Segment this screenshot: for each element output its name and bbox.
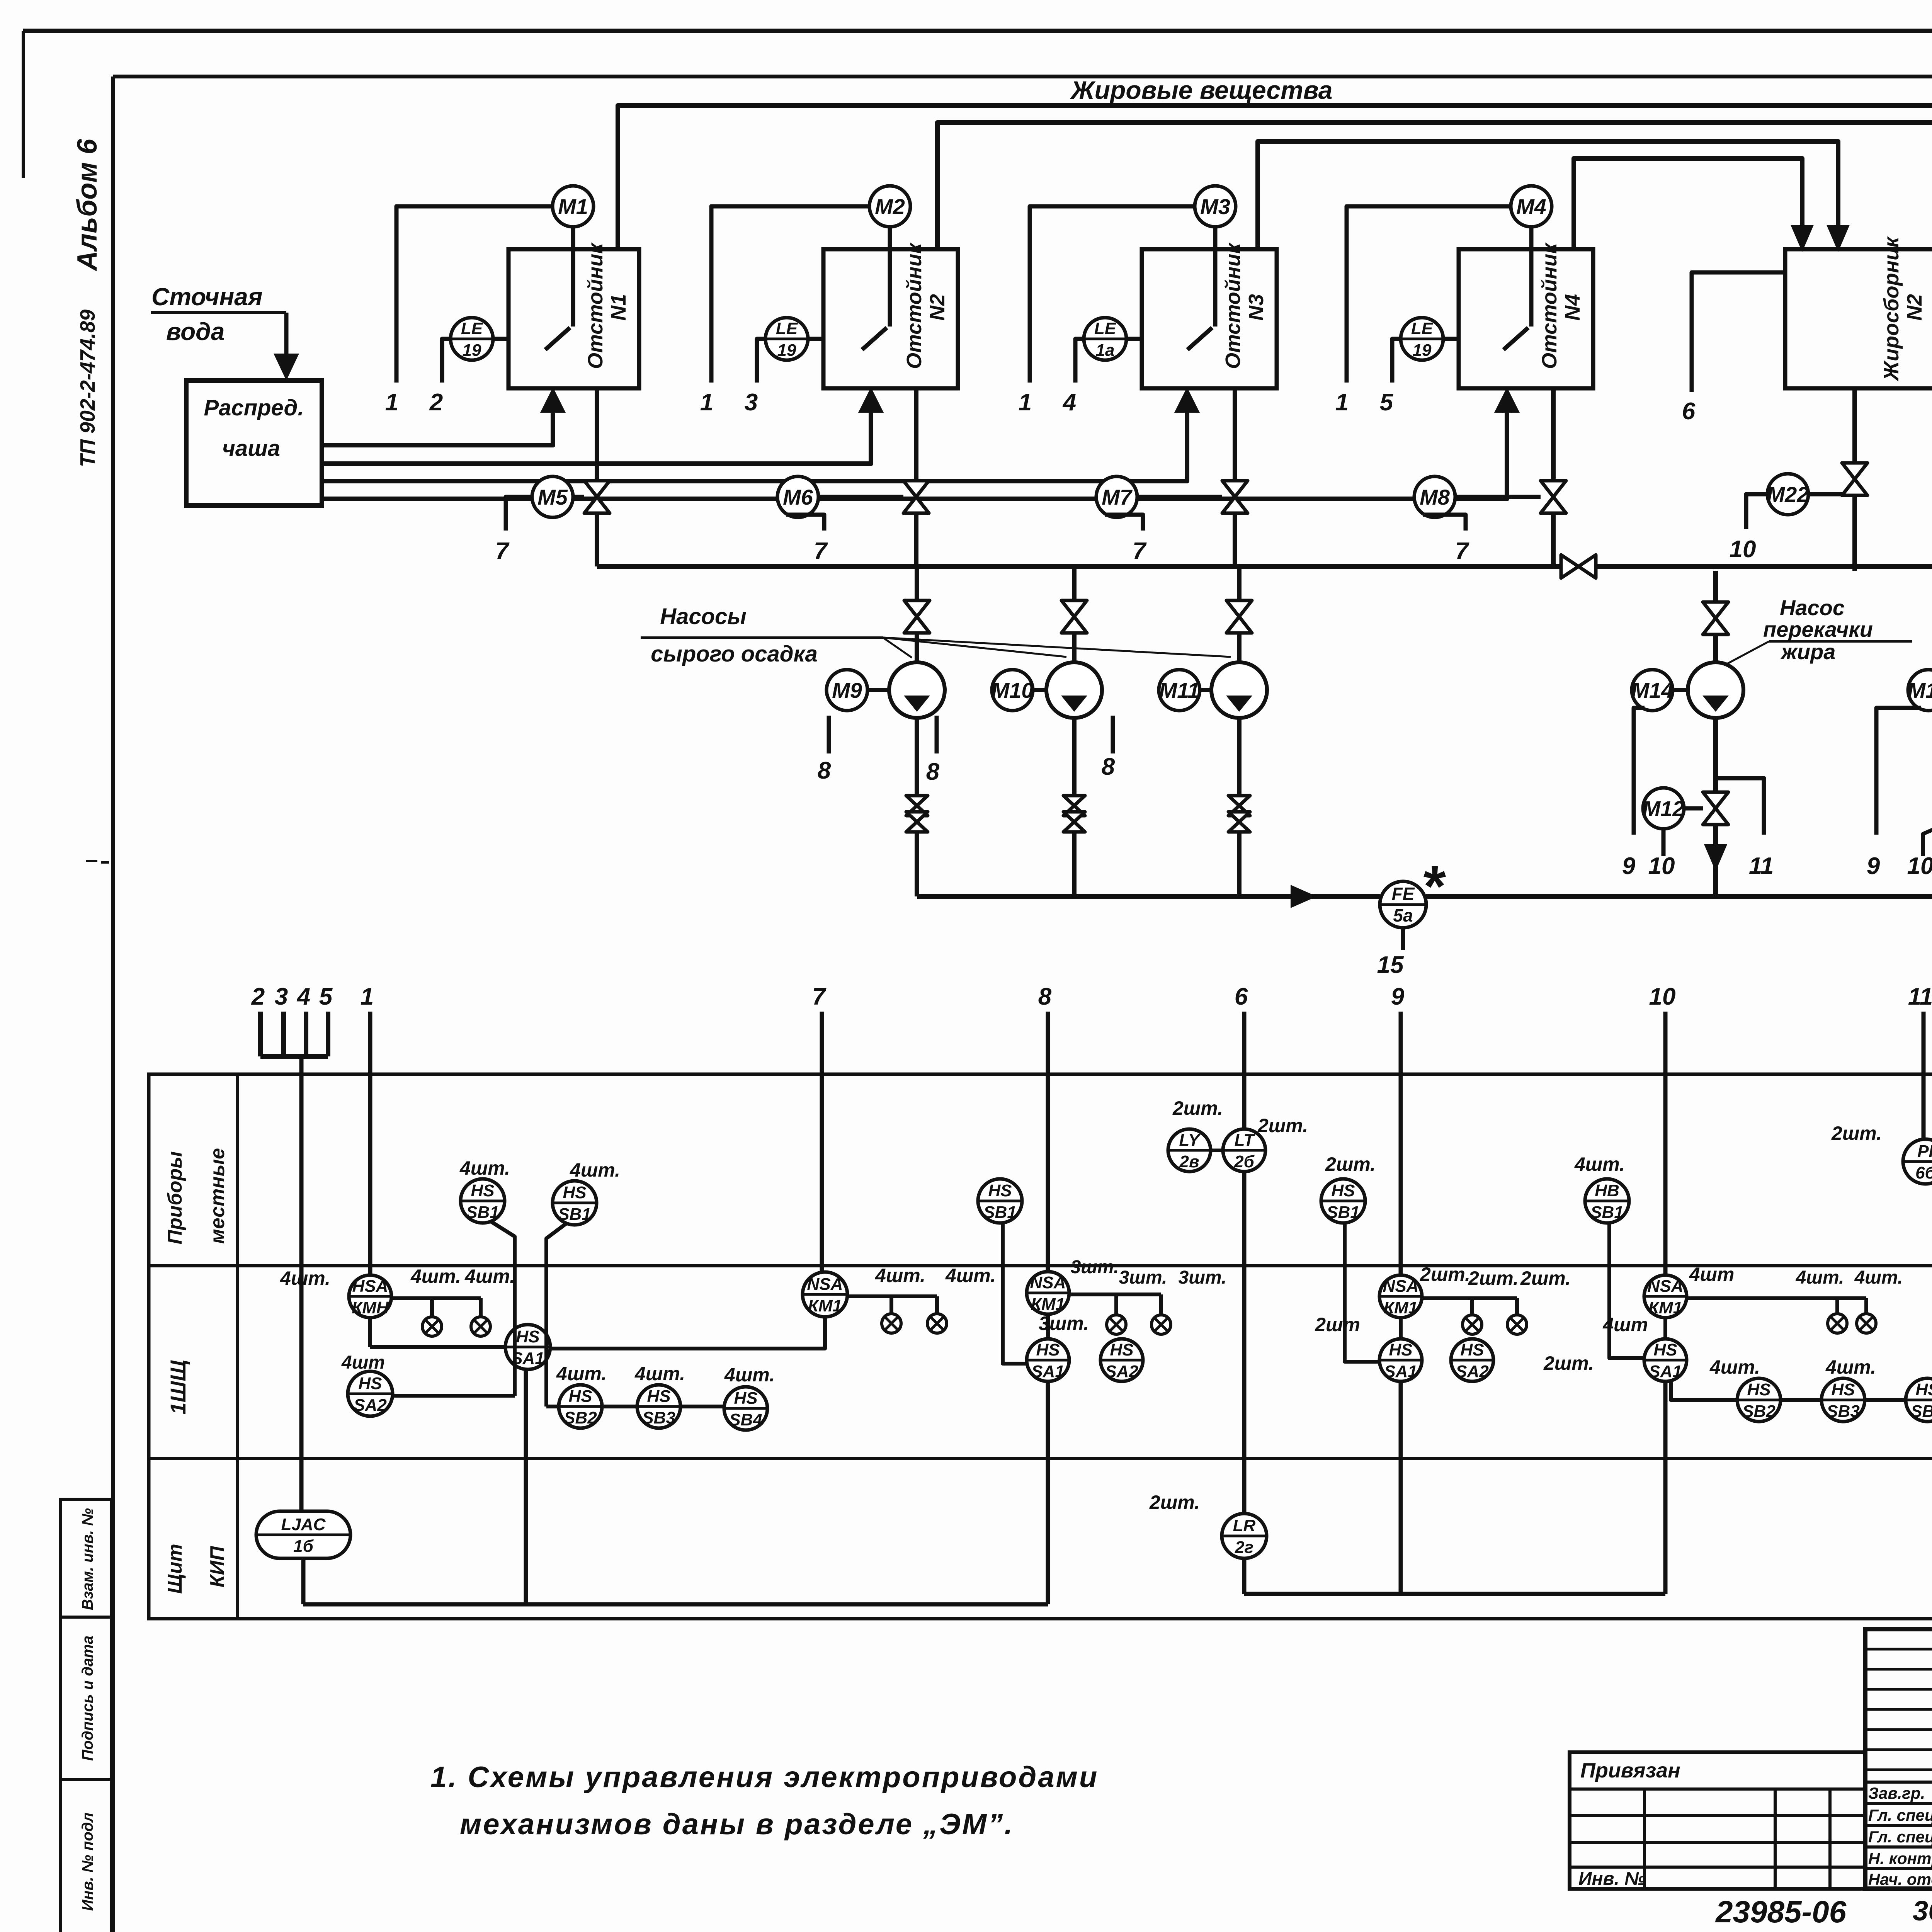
- svg-text:Подпись и дата: Подпись и дата: [79, 1636, 96, 1761]
- svg-text:2: 2: [251, 983, 265, 1010]
- svg-text:1а: 1а: [1096, 341, 1115, 360]
- svg-text:ТП 902-2-474.89: ТП 902-2-474.89: [76, 310, 99, 467]
- svg-text:SA2: SA2: [1105, 1362, 1138, 1381]
- svg-text:N1: N1: [607, 294, 630, 321]
- svg-text:LE: LE: [461, 319, 483, 338]
- svg-text:2г: 2г: [1235, 1538, 1253, 1557]
- svg-text:КМ1: КМ1: [1384, 1298, 1418, 1317]
- svg-text:жира: жира: [1780, 639, 1836, 664]
- svg-text:2шт.: 2шт.: [1172, 1097, 1223, 1119]
- svg-text:NSA: NSA: [807, 1275, 843, 1294]
- svg-text:7: 7: [812, 983, 827, 1010]
- svg-text:10: 10: [1907, 853, 1932, 879]
- svg-text:Сточная: Сточная: [151, 283, 262, 311]
- svg-text:Отстойник: Отстойник: [903, 242, 926, 369]
- svg-text:SB1: SB1: [558, 1205, 591, 1224]
- svg-text:2: 2: [429, 389, 443, 416]
- svg-text:LR: LR: [1233, 1516, 1256, 1535]
- svg-text:5: 5: [1380, 389, 1394, 416]
- svg-text:1. Схемы управления электроп: 1. Схемы управления электроприводами: [430, 1761, 1099, 1794]
- svg-text:6: 6: [1682, 398, 1696, 425]
- svg-text:N3: N3: [1245, 294, 1268, 321]
- svg-text:4шт.: 4шт.: [875, 1265, 925, 1286]
- svg-text:7: 7: [1455, 538, 1469, 565]
- svg-text:КМ1: КМ1: [808, 1296, 842, 1315]
- svg-text:M1: M1: [558, 194, 588, 219]
- svg-text:PI: PI: [1917, 1142, 1932, 1161]
- svg-text:SB1: SB1: [1327, 1203, 1360, 1222]
- svg-text:HS: HS: [988, 1181, 1012, 1200]
- svg-text:4шт.: 4шт.: [1574, 1153, 1625, 1175]
- svg-text:3шт.: 3шт.: [1119, 1267, 1167, 1288]
- svg-text:HS: HS: [568, 1387, 592, 1406]
- svg-text:M3: M3: [1200, 194, 1230, 219]
- svg-text:11: 11: [1908, 983, 1932, 1010]
- svg-text:6б: 6б: [1915, 1163, 1932, 1182]
- svg-text:SA2: SA2: [1456, 1362, 1489, 1381]
- svg-text:4шт.: 4шт.: [1709, 1356, 1760, 1378]
- svg-text:HS: HS: [734, 1389, 757, 1408]
- svg-text:36: 36: [1913, 1896, 1932, 1927]
- svg-text:LE: LE: [1411, 319, 1434, 338]
- svg-text:LE: LE: [776, 319, 798, 338]
- svg-text:HS: HS: [1831, 1380, 1855, 1399]
- svg-text:5а: 5а: [1393, 905, 1413, 925]
- svg-text:Взам. инв. №: Взам. инв. №: [79, 1508, 96, 1610]
- svg-text:HS: HS: [471, 1181, 494, 1200]
- svg-text:SA1: SA1: [1649, 1362, 1682, 1381]
- svg-text:2шт.: 2шт.: [1325, 1153, 1376, 1175]
- svg-text:M4: M4: [1516, 194, 1546, 219]
- svg-text:1: 1: [700, 389, 713, 416]
- svg-text:КИП: КИП: [206, 1546, 229, 1587]
- svg-text:Отстойник: Отстойник: [1221, 242, 1245, 369]
- svg-text:SB1: SB1: [1590, 1203, 1624, 1222]
- svg-text:15: 15: [1377, 952, 1404, 978]
- svg-text:SB3: SB3: [642, 1408, 675, 1427]
- svg-text:6: 6: [1235, 983, 1248, 1010]
- svg-text:3шт.: 3шт.: [1179, 1267, 1227, 1288]
- svg-text:LT: LT: [1235, 1131, 1255, 1150]
- svg-text:M15: M15: [1908, 678, 1932, 702]
- svg-text:HS: HS: [516, 1327, 539, 1346]
- svg-text:КМ1: КМ1: [1031, 1295, 1065, 1314]
- svg-text:5: 5: [319, 983, 333, 1010]
- svg-text:2шт.: 2шт.: [1257, 1115, 1308, 1136]
- svg-text:4: 4: [296, 983, 310, 1010]
- svg-text:7: 7: [1133, 538, 1147, 565]
- svg-text:4шт.: 4шт.: [1796, 1267, 1844, 1288]
- svg-text:*: *: [1421, 854, 1446, 918]
- svg-text:4шт.: 4шт.: [280, 1267, 330, 1289]
- svg-text:2б: 2б: [1234, 1152, 1255, 1171]
- svg-text:1ШЩ: 1ШЩ: [166, 1360, 190, 1414]
- svg-text:4: 4: [1062, 389, 1076, 416]
- svg-text:M11: M11: [1159, 678, 1200, 702]
- svg-text:SB1: SB1: [983, 1203, 1017, 1222]
- svg-text:1: 1: [361, 983, 374, 1010]
- svg-text:3: 3: [745, 389, 758, 416]
- svg-text:M7: M7: [1102, 485, 1133, 509]
- svg-text:8: 8: [818, 757, 831, 784]
- svg-text:HS: HS: [1110, 1340, 1133, 1359]
- svg-text:SB3: SB3: [1827, 1402, 1860, 1421]
- svg-text:4шт.: 4шт.: [1854, 1267, 1903, 1288]
- svg-text:4шт.: 4шт.: [724, 1364, 775, 1386]
- svg-text:2в: 2в: [1179, 1152, 1199, 1171]
- svg-text:2шт.: 2шт.: [1149, 1492, 1200, 1513]
- svg-text:Щит: Щит: [164, 1544, 186, 1594]
- svg-text:7: 7: [495, 538, 510, 565]
- svg-text:1б: 1б: [293, 1537, 314, 1556]
- svg-text:перекачки: перекачки: [1763, 617, 1873, 641]
- svg-text:Гл. спец: Гл. спец: [1868, 1828, 1932, 1846]
- svg-text:Гл. спец: Гл. спец: [1868, 1806, 1932, 1824]
- svg-text:механизмов даны в разделе „Э: механизмов даны в разделе „ЭМ”.: [460, 1808, 1014, 1841]
- svg-text:4шт.: 4шт.: [556, 1363, 607, 1384]
- svg-text:4шт.: 4шт.: [945, 1265, 996, 1286]
- svg-text:N2: N2: [926, 294, 949, 321]
- svg-text:Распред.: Распред.: [204, 395, 304, 420]
- svg-text:HSA: HSA: [352, 1277, 388, 1296]
- svg-text:4шт.: 4шт.: [1825, 1356, 1876, 1378]
- svg-text:SB2: SB2: [564, 1408, 597, 1427]
- svg-text:Насос: Насос: [1780, 595, 1845, 620]
- svg-text:SA1: SA1: [1031, 1362, 1065, 1381]
- svg-text:3: 3: [275, 983, 288, 1010]
- svg-text:M8: M8: [1420, 485, 1450, 509]
- svg-text:4шт: 4шт: [341, 1352, 385, 1373]
- svg-text:SB2: SB2: [1742, 1402, 1776, 1421]
- svg-text:M14: M14: [1631, 678, 1673, 702]
- svg-text:сырого осадка: сырого осадка: [651, 641, 818, 667]
- svg-text:HS: HS: [563, 1183, 586, 1202]
- svg-text:2шт.: 2шт.: [1520, 1267, 1571, 1289]
- svg-text:N4: N4: [1561, 294, 1584, 321]
- svg-text:1: 1: [385, 389, 398, 416]
- svg-text:NSA: NSA: [1030, 1273, 1066, 1292]
- svg-text:HS: HS: [1036, 1340, 1060, 1359]
- svg-text:4шт.: 4шт.: [634, 1363, 685, 1384]
- svg-text:4шт.: 4шт.: [410, 1265, 461, 1287]
- svg-text:4шт.: 4шт.: [464, 1265, 515, 1287]
- svg-text:10: 10: [1730, 536, 1756, 563]
- svg-text:SB4: SB4: [729, 1410, 762, 1429]
- svg-text:2шт.: 2шт.: [1543, 1352, 1594, 1374]
- svg-text:1: 1: [1019, 389, 1032, 416]
- svg-text:23985-06: 23985-06: [1715, 1895, 1847, 1929]
- svg-text:NSA: NSA: [1648, 1277, 1684, 1296]
- svg-text:19: 19: [777, 341, 796, 360]
- svg-text:SA1: SA1: [1384, 1362, 1417, 1381]
- svg-text:M2: M2: [875, 194, 905, 219]
- svg-text:NSA: NSA: [1383, 1277, 1419, 1296]
- svg-text:Приборы: Приборы: [164, 1151, 186, 1244]
- svg-text:9: 9: [1867, 853, 1880, 879]
- svg-text:9: 9: [1391, 983, 1405, 1010]
- svg-text:LY: LY: [1179, 1131, 1201, 1150]
- svg-text:Зав.гр.: Зав.гр.: [1868, 1784, 1925, 1802]
- svg-text:HS: HS: [1389, 1340, 1412, 1359]
- svg-text:КМ1: КМ1: [1648, 1298, 1682, 1317]
- svg-text:местные: местные: [206, 1148, 229, 1244]
- svg-text:Н. контр.: Н. контр.: [1868, 1849, 1932, 1867]
- svg-text:3шт.: 3шт.: [1071, 1257, 1119, 1277]
- svg-text:2шт: 2шт: [1315, 1314, 1360, 1335]
- svg-text:LJAC: LJAC: [281, 1515, 326, 1534]
- svg-text:4шт.: 4шт.: [570, 1159, 620, 1181]
- svg-text:чаша: чаша: [222, 436, 280, 461]
- svg-text:M6: M6: [783, 485, 813, 509]
- svg-text:Насосы: Насосы: [660, 604, 747, 629]
- svg-text:10: 10: [1648, 853, 1675, 879]
- svg-text:7: 7: [814, 538, 828, 565]
- svg-text:FE: FE: [1392, 884, 1415, 904]
- svg-text:2шт.: 2шт.: [1468, 1267, 1519, 1289]
- svg-text:10: 10: [1649, 983, 1676, 1010]
- svg-text:вода: вода: [166, 318, 224, 345]
- svg-text:SB1: SB1: [466, 1203, 499, 1222]
- svg-text:M22: M22: [1767, 482, 1809, 507]
- svg-text:Нач. отд.: Нач. отд.: [1868, 1870, 1932, 1888]
- svg-text:M5: M5: [537, 485, 568, 509]
- svg-text:M9: M9: [832, 678, 862, 702]
- svg-text:M12: M12: [1643, 796, 1685, 821]
- svg-text:LE: LE: [1094, 319, 1117, 338]
- svg-text:8: 8: [1038, 983, 1052, 1010]
- svg-text:Отстойник: Отстойник: [584, 242, 607, 369]
- svg-text:9: 9: [1622, 853, 1636, 879]
- svg-text:HS: HS: [1331, 1181, 1355, 1200]
- svg-text:Инв. №: Инв. №: [1578, 1869, 1646, 1889]
- svg-text:N2: N2: [1903, 294, 1926, 321]
- svg-text:HS: HS: [1653, 1340, 1677, 1359]
- svg-text:2шт.: 2шт.: [1831, 1122, 1882, 1144]
- svg-text:Альбом 6: Альбом 6: [72, 138, 103, 271]
- svg-text:4шт: 4шт: [1602, 1314, 1648, 1335]
- svg-text:Жиросборник: Жиросборник: [1880, 236, 1903, 382]
- svg-text:1: 1: [1335, 389, 1349, 416]
- svg-text:4шт: 4шт: [1689, 1264, 1735, 1285]
- svg-text:Жировые вещества: Жировые вещества: [1070, 76, 1332, 104]
- svg-text:SA2: SA2: [354, 1396, 387, 1415]
- svg-text:HS: HS: [1747, 1380, 1770, 1399]
- svg-text:HS: HS: [358, 1374, 382, 1393]
- svg-text:8: 8: [926, 759, 940, 785]
- svg-text:19: 19: [1413, 341, 1432, 360]
- svg-text:8: 8: [1102, 753, 1115, 780]
- svg-text:19: 19: [463, 341, 481, 360]
- svg-text:HS: HS: [1915, 1380, 1932, 1399]
- svg-text:КМН: КМН: [352, 1298, 389, 1317]
- svg-text:SB4: SB4: [1911, 1402, 1932, 1421]
- svg-text:Привязан: Привязан: [1580, 1759, 1680, 1782]
- svg-text:4шт.: 4шт.: [459, 1157, 510, 1179]
- svg-text:HS: HS: [1460, 1340, 1484, 1359]
- svg-text:HS: HS: [647, 1387, 670, 1406]
- svg-text:M10: M10: [992, 678, 1034, 702]
- svg-text:Инв. № подл: Инв. № подл: [79, 1813, 96, 1911]
- svg-text:2шт.: 2шт.: [1420, 1264, 1470, 1285]
- svg-text:11: 11: [1749, 853, 1774, 879]
- svg-text:Отстойник: Отстойник: [1538, 242, 1561, 369]
- svg-text:HB: HB: [1595, 1181, 1619, 1200]
